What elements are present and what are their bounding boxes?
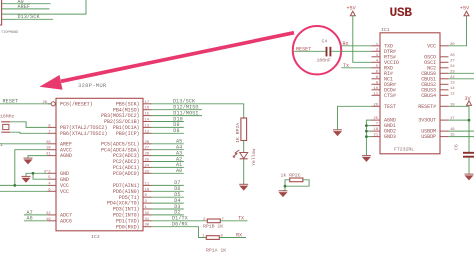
svg-text:GND3: GND3	[384, 134, 396, 140]
ground symbol at RP2C	[279, 191, 288, 197]
pin 12 PB0(ICP) of IC3	[116, 130, 152, 137]
pin 5 GND of IC3	[48, 176, 69, 183]
wire VCC pin 4 rail	[0, 184, 48, 186]
power +5V (left)	[347, 6, 357, 16]
pin 2 DTR# of IC1	[372, 48, 396, 55]
wire to +5V (unlabeled)	[2, 0, 86, 14]
pin 22 ADC7 of IC3	[46, 212, 72, 219]
pin 17 3V3OUT of IC1	[418, 117, 455, 124]
svg-text:Yellow: Yellow	[251, 149, 257, 166]
wire VCC pin 20 to +5V	[449, 16, 467, 46]
wire RESET to C4	[294, 46, 326, 52]
wire RP2C to ground	[283, 186, 285, 190]
pin 19 ADC6 of IC3	[46, 218, 72, 225]
pin 15 PB3(MOSI/OC2) of IC3	[101, 113, 151, 120]
wire A5	[152, 139, 184, 145]
svg-text:D8: D8	[173, 128, 179, 134]
pin 1 PD3(INT1) of IC3	[113, 206, 152, 213]
svg-text:VCC: VCC	[427, 43, 436, 49]
wire D2	[152, 210, 184, 216]
svg-text:1: 1	[0, 142, 3, 148]
svg-text:16: 16	[145, 107, 150, 111]
pin 15 USBDP of IC1	[421, 134, 455, 141]
wire AVCC to VCC rail	[15, 150, 48, 186]
pin 28 OSCO of IC1	[424, 54, 455, 61]
wire AGND/GND tie	[366, 120, 371, 155]
resistor RP2C 1k	[281, 173, 303, 182]
pin 6 RI# of IC1	[372, 70, 393, 77]
wire A0	[152, 168, 184, 174]
svg-text:10: 10	[373, 87, 378, 91]
pin 14 CBUS3 of IC1	[421, 87, 455, 94]
svg-text:21: 21	[373, 134, 378, 138]
svg-text:+5V: +5V	[347, 6, 357, 12]
pin 20 VCC of IC1	[427, 43, 455, 50]
svg-text:RP1B 1K: RP1B 1K	[203, 224, 223, 230]
svg-text:3V3OUT: 3V3OUT	[418, 118, 436, 124]
svg-text:26: 26	[373, 103, 378, 107]
pin 19 RESET# of IC1	[418, 103, 455, 110]
pin 30 PD0(RXD) of IC3	[116, 224, 152, 231]
resistor RP1A 1K	[202, 235, 226, 254]
wire D13/SCK to LED chain	[152, 99, 244, 118]
svg-text:27: 27	[145, 147, 150, 151]
svg-text:11: 11	[373, 92, 378, 96]
svg-text:10: 10	[145, 188, 150, 192]
pin 7 PB6(XTAL1/TOSC1) of IC3	[48, 130, 108, 137]
pin 10 DCD# of IC1	[372, 87, 396, 94]
wire +5V to VCCIO pin 4	[353, 16, 372, 63]
junction RP2C	[284, 185, 287, 188]
svg-text:C4: C4	[322, 39, 328, 45]
wire C4 to DTR# pin 2	[331, 50, 371, 52]
pin 12 CBUS4 of IC1	[421, 92, 455, 99]
svg-text:26: 26	[145, 153, 150, 157]
annotation arrow	[40, 33, 295, 90]
ground symbol at AGND	[24, 158, 33, 164]
svg-text:USB: USB	[390, 5, 413, 20]
svg-text:C6: C6	[454, 144, 460, 150]
wire D1/TX	[152, 216, 208, 222]
pin 11 CTS# of IC1	[372, 92, 396, 99]
svg-text:31: 31	[145, 218, 150, 222]
op chip IC3 ATmega328 body	[56, 82, 143, 240]
svg-text:27: 27	[450, 59, 455, 63]
LED yellow	[233, 149, 257, 166]
wire CBUS0	[449, 72, 474, 74]
wire D7	[152, 180, 184, 186]
svg-text:USBDP: USBDP	[421, 134, 436, 140]
pin 18 GND2 of IC1	[372, 128, 396, 135]
wire 3V3OUT	[449, 119, 470, 121]
pin 23 CBUS0 of IC1	[421, 70, 455, 77]
svg-text:16MHz: 16MHz	[0, 114, 15, 120]
svg-text:13: 13	[145, 124, 150, 128]
svg-text:VCC: VCC	[60, 189, 69, 195]
wire Tx to RXD pin 5	[341, 63, 371, 69]
pin 7 GND1 of IC1	[372, 123, 396, 130]
pin 25 PC2(ADC2) of IC3	[113, 159, 152, 166]
svg-text:1k RP2C: 1k RP2C	[281, 173, 301, 179]
svg-text:PC6(/RESET): PC6(/RESET)	[60, 101, 93, 107]
pin 16 PB4(MISO) of IC3	[113, 107, 152, 114]
svg-text:24: 24	[145, 164, 150, 168]
pin 14 PB2(SS/OC1B) of IC3	[104, 119, 151, 126]
pin 9 DSR# of IC1	[372, 81, 396, 88]
wire AREF to pin 20	[0, 143, 48, 145]
svg-text:1K RP2A: 1K RP2A	[235, 123, 241, 143]
wire LED to ground	[243, 159, 245, 184]
svg-text:AGND: AGND	[60, 153, 72, 159]
svg-text:IC3: IC3	[91, 234, 100, 240]
wire Rx to TXD pin 1	[341, 41, 371, 47]
pin 17 PB5(SCK) of IC3	[116, 101, 152, 108]
ground symbol at GND pins	[22, 173, 31, 182]
pin 9 PD5(T1) of IC3	[119, 194, 152, 201]
wire D6	[152, 186, 184, 192]
svg-text:+5V: +5V	[460, 6, 470, 12]
svg-text:25: 25	[145, 159, 150, 163]
svg-text:12: 12	[450, 92, 455, 96]
svg-text:A6: A6	[27, 216, 33, 222]
svg-text:Rx: Rx	[343, 41, 349, 47]
pin 16 USBDM of IC1	[421, 128, 455, 135]
svg-text:RX: RX	[236, 232, 242, 238]
svg-text:AREF: AREF	[18, 4, 31, 10]
wire USBDM	[449, 130, 474, 132]
pin 27 OSCI of IC1	[424, 59, 455, 66]
pin 27 PC4(ADC4/SDA) of IC3	[101, 147, 151, 154]
pin 13 PB1(OC1A) of IC3	[113, 124, 152, 131]
pin 21 AGND of IC3	[46, 153, 72, 160]
wire D13/SCK (top)	[2, 14, 53, 20]
wire USBDP	[449, 136, 474, 138]
svg-text:TX: TX	[238, 216, 244, 222]
power +3V3	[465, 96, 472, 105]
svg-text:30: 30	[145, 224, 150, 228]
svg-text:3V: 3V	[465, 96, 472, 102]
svg-text:RP1A 1K: RP1A 1K	[206, 248, 226, 254]
svg-text:328P-MUR: 328P-MUR	[78, 82, 107, 89]
pin 3*2 GND of IC3	[44, 169, 69, 177]
svg-text:25: 25	[373, 117, 378, 121]
wire RP2C loop	[285, 180, 309, 186]
svg-text:PB6(XTAL1/TOSC1): PB6(XTAL1/TOSC1)	[60, 131, 107, 137]
wire D3	[152, 204, 184, 210]
label USB title	[390, 5, 413, 20]
pin 11 PD7(AIN1) of IC3	[113, 182, 152, 189]
capacitor C4 100nF	[317, 39, 332, 64]
wire XTAL2 to pin 8	[10, 122, 47, 128]
wire D8	[152, 128, 184, 134]
wire A2	[152, 156, 184, 162]
wire RX	[219, 232, 246, 238]
svg-text:15: 15	[145, 113, 150, 117]
wire resistor to LED	[243, 141, 245, 153]
junction GND1	[365, 124, 368, 127]
pin 24 PC1(ADC1) of IC3	[113, 164, 152, 171]
svg-text:100nF: 100nF	[317, 58, 332, 64]
resistor RP1B 1K	[203, 218, 225, 230]
wire D11/MOSI	[152, 110, 203, 116]
svg-text:28: 28	[450, 54, 455, 58]
svg-text:CTS#: CTS#	[384, 93, 396, 99]
svg-text:17: 17	[145, 101, 150, 105]
capacitor C6	[454, 144, 474, 157]
op chip IC1 FT232RL body	[380, 27, 440, 154]
wire A0	[2, 0, 51, 5]
power +5V (right)	[460, 6, 470, 16]
svg-text:14: 14	[145, 119, 150, 123]
connector SV1 (cut off at top-left)	[0, 0, 2, 25]
pin 8 PB7(XTAL2/TOSC2) of IC3	[48, 124, 108, 131]
pin 24 NC2 of IC1	[427, 65, 455, 72]
pin 18 AVCC of IC3	[46, 147, 72, 154]
wire GND pin 3	[26, 172, 48, 174]
wire XTAL1 to pin 7	[10, 132, 47, 133]
svg-text:32: 32	[145, 212, 150, 216]
ground symbol below LED	[239, 184, 248, 190]
ground symbol below C6	[465, 174, 474, 180]
svg-text:PB0(ICP): PB0(ICP)	[116, 131, 140, 137]
pin 23 PC0(ADC0) of IC3	[113, 170, 152, 177]
pin 2 PD4(XCK/T0) of IC3	[107, 200, 152, 207]
wire C6 to ground	[468, 158, 470, 174]
label C1 (cut)	[0, 142, 3, 148]
wire A1	[152, 162, 184, 168]
svg-text:Tx: Tx	[343, 63, 349, 69]
ground symbol at TEST	[333, 130, 342, 136]
svg-text:A0: A0	[176, 168, 182, 174]
svg-text:18: 18	[373, 128, 378, 132]
junction GND tie	[32, 172, 35, 175]
svg-text:PC0(ADC0): PC0(ADC0)	[113, 171, 140, 177]
pin 13 CBUS2 of IC1	[421, 81, 455, 88]
wire D10	[152, 116, 184, 122]
wire D12/MISO	[152, 105, 203, 111]
pin 1 TXD of IC1	[372, 43, 393, 50]
pin 29 PC6(/RESET) of IC3 with inversion bubble	[43, 101, 93, 108]
pin 5 RXD of IC1	[372, 65, 393, 72]
svg-text:13: 13	[450, 81, 455, 85]
wire AGND down	[28, 156, 48, 158]
pin 10 PD6(AIN0) of IC3	[113, 188, 152, 195]
svg-text:ADC6: ADC6	[60, 218, 72, 224]
svg-text:23: 23	[145, 170, 150, 174]
label ICSP header name	[1, 31, 18, 35]
svg-text:FT232RL: FT232RL	[394, 147, 414, 153]
svg-text:IC1: IC1	[381, 27, 390, 33]
pin 6 VCC of IC3	[48, 188, 69, 195]
svg-text:TIOPMAND: TIOPMAND	[1, 31, 18, 35]
wire RESET into pin 29	[0, 99, 51, 105]
svg-text:CBUS4: CBUS4	[421, 93, 436, 99]
wire GND pin 5 tie	[33, 173, 48, 179]
pin 28 PC5(ADC5/SCL) of IC3	[101, 141, 151, 148]
pin 3 RTS# of IC1	[372, 54, 396, 61]
wire D4	[152, 198, 184, 204]
wire TX	[220, 216, 247, 222]
wire TEST to ground	[338, 106, 372, 129]
svg-text:14: 14	[450, 87, 455, 91]
wire RESET# to +3V3 rail	[449, 106, 470, 152]
wire CBUS1	[449, 78, 474, 80]
svg-text:RESET: RESET	[3, 99, 19, 105]
junction 3V3OUT	[468, 119, 471, 122]
svg-text:24: 24	[450, 65, 455, 69]
wire D5	[152, 192, 184, 198]
wire A3	[152, 150, 184, 156]
pin 32 PD2(INT0) of IC3	[113, 212, 152, 219]
pin 20 AREF of IC3	[46, 141, 72, 148]
pin 31 PD1(TXD) of IC3	[116, 218, 152, 225]
ground symbol at GND pins of IC1	[362, 156, 371, 162]
annotation circle around C4	[293, 26, 341, 74]
wire A6 to ADC6	[24, 216, 48, 222]
svg-text:RESET#: RESET#	[418, 104, 436, 110]
wire D9	[152, 122, 184, 128]
crystal Q1 16MHz	[0, 114, 15, 133]
wire A7 to ADC7	[24, 210, 48, 216]
junction AVCC/VCC	[13, 184, 16, 187]
svg-text:GND: GND	[60, 177, 69, 183]
svg-text:RESET: RESET	[296, 46, 311, 52]
wire A4	[152, 145, 184, 151]
pin 8 NC1 of IC1	[372, 76, 393, 83]
svg-text:11: 11	[145, 182, 150, 186]
pin 4 VCC of IC3	[48, 182, 69, 189]
svg-text:28: 28	[145, 141, 150, 145]
pin 4 VCCIO of IC1	[372, 59, 399, 66]
svg-text:TEST: TEST	[384, 104, 396, 110]
wire AREF (top)	[2, 4, 50, 10]
pin 26 PC3(ADC3) of IC3	[113, 153, 152, 160]
pin 25 AGND of IC1	[372, 117, 396, 124]
pin 21 GND3 of IC1	[372, 134, 396, 141]
svg-text:PD0(RXD): PD0(RXD)	[116, 224, 140, 230]
junction GND3	[365, 135, 368, 138]
wire D0/RX	[152, 222, 207, 238]
wire VCC pin 6	[0, 190, 48, 192]
pin 22 CBUS1 of IC1	[421, 76, 455, 83]
pin 26 TEST of IC1	[372, 103, 396, 110]
junction GND2	[365, 130, 368, 133]
svg-text:12: 12	[145, 130, 150, 134]
svg-text:D13/SCK: D13/SCK	[18, 14, 41, 20]
svg-text:D0/RX: D0/RX	[172, 222, 188, 228]
resistor RP2A 1K (vertical)	[235, 118, 247, 143]
